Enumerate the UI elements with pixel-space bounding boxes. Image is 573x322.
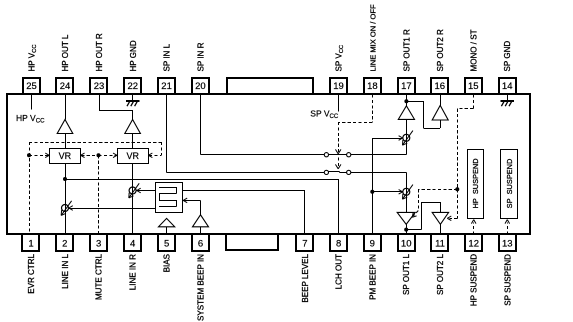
svg-text:SYSTEM BEEP IN: SYSTEM BEEP IN: [197, 254, 206, 321]
svg-text:7: 7: [302, 239, 307, 250]
svg-text:16: 16: [435, 81, 446, 92]
svg-text:HP OUT R: HP OUT R: [95, 33, 104, 71]
svg-text:19: 19: [333, 81, 344, 92]
svg-text:PM BEEP IN: PM BEEP IN: [368, 254, 377, 300]
svg-text:BIAS: BIAS: [163, 254, 172, 272]
svg-text:SP OUT1 L: SP OUT1 L: [402, 253, 411, 295]
svg-text:24: 24: [60, 81, 71, 92]
svg-text:LINE MIX ON / OFF: LINE MIX ON / OFF: [368, 4, 377, 71]
svg-text:8: 8: [336, 239, 341, 250]
svg-text:SP OUT2 L: SP OUT2 L: [436, 253, 445, 295]
svg-text:10: 10: [401, 239, 412, 250]
svg-text:22: 22: [128, 81, 139, 92]
svg-text:2: 2: [62, 239, 67, 250]
svg-text:HP OUT L: HP OUT L: [61, 34, 70, 71]
svg-text:SP OUT1 R: SP OUT1 R: [402, 29, 411, 72]
svg-text:3: 3: [96, 239, 101, 250]
svg-text:LINE IN L: LINE IN L: [61, 253, 70, 288]
svg-text:SP OUT2 R: SP OUT2 R: [436, 29, 445, 72]
svg-text:25: 25: [26, 81, 37, 92]
svg-text:MONO / ST: MONO / ST: [469, 29, 478, 71]
svg-text:LINE IN R: LINE IN R: [129, 254, 138, 290]
svg-text:EVR CTRL: EVR CTRL: [27, 253, 36, 293]
svg-text:13: 13: [502, 239, 513, 250]
svg-text:BEEP LEVEL: BEEP LEVEL: [301, 253, 310, 302]
svg-text:VR: VR: [126, 151, 139, 161]
svg-text:20: 20: [195, 81, 206, 92]
svg-text:VR: VR: [59, 151, 72, 161]
svg-text:1: 1: [28, 239, 33, 250]
svg-text:SP GND: SP GND: [503, 41, 512, 72]
svg-text:21: 21: [161, 81, 172, 92]
svg-text:15: 15: [468, 81, 479, 92]
svg-text:HP GND: HP GND: [129, 40, 138, 71]
svg-text:MUTE CTRL: MUTE CTRL: [95, 253, 104, 300]
svg-text:SP SUSPEND: SP SUSPEND: [505, 159, 514, 209]
svg-text:LCH OUT: LCH OUT: [335, 254, 344, 289]
svg-text:18: 18: [367, 81, 378, 92]
svg-text:9: 9: [370, 239, 375, 250]
svg-text:6: 6: [198, 239, 203, 250]
svg-text:17: 17: [401, 81, 412, 92]
svg-text:23: 23: [94, 81, 105, 92]
svg-text:5: 5: [164, 239, 169, 250]
svg-text:SP IN R: SP IN R: [196, 42, 205, 71]
svg-text:HP SUSPEND: HP SUSPEND: [471, 158, 480, 208]
svg-text:SP IN L: SP IN L: [163, 43, 172, 71]
svg-text:HP SUSPEND: HP SUSPEND: [470, 254, 479, 306]
svg-text:11: 11: [435, 239, 445, 250]
svg-text:14: 14: [502, 81, 513, 92]
svg-text:12: 12: [468, 239, 479, 250]
svg-text:SP SUSPEND: SP SUSPEND: [503, 254, 512, 306]
svg-text:4: 4: [130, 239, 135, 250]
